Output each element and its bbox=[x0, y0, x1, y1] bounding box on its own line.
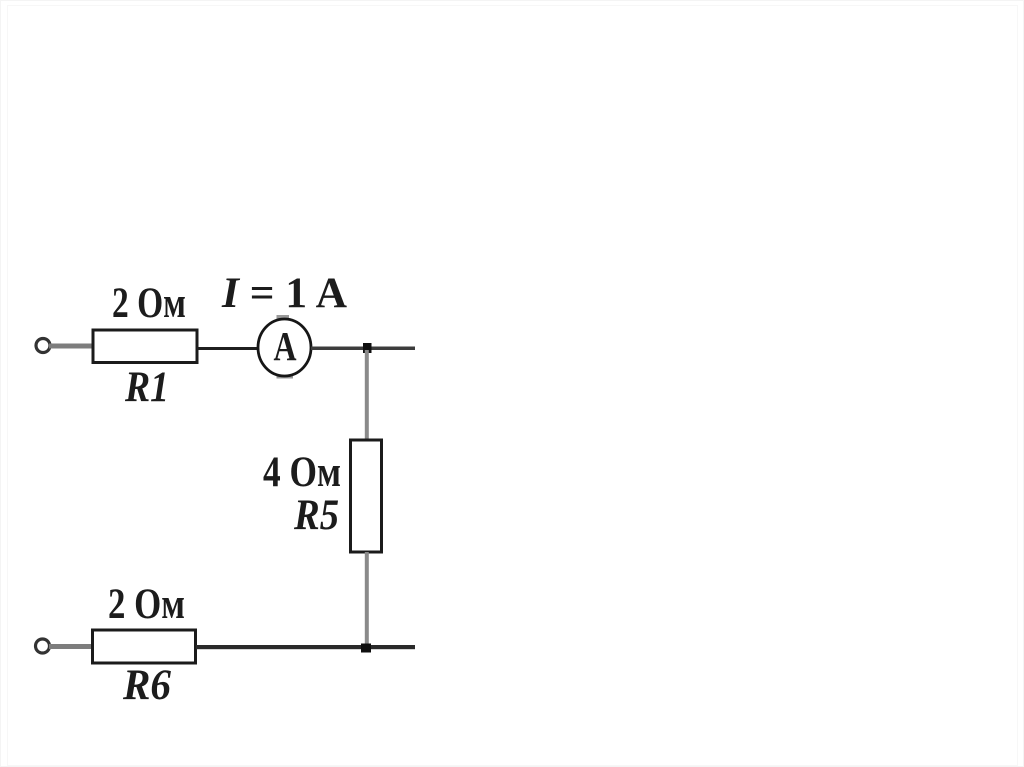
wire R6 to node B and right stub bbox=[196, 645, 415, 649]
wire R1 to ammeter bbox=[197, 347, 258, 350]
svg-text:R5: R5 bbox=[293, 492, 339, 539]
wire terminal to R1 bbox=[49, 344, 93, 349]
node A junction dot bbox=[363, 343, 372, 353]
svg-text:R6: R6 bbox=[122, 662, 171, 709]
terminal top-left bbox=[36, 339, 50, 353]
svg-text:2 Ом: 2 Ом bbox=[108, 581, 185, 628]
wire R5 to node B bbox=[365, 552, 369, 646]
ammeter U1 terminal tab bottom bbox=[277, 374, 294, 379]
terminal bottom-left bbox=[36, 639, 50, 653]
node B junction dot bbox=[361, 644, 371, 653]
svg-text:I = 1 A: I = 1 A bbox=[221, 270, 347, 317]
svg-text:A: A bbox=[274, 323, 297, 369]
ammeter U1 terminal tab top bbox=[277, 315, 290, 320]
svg-text:2 Ом: 2 Ом bbox=[112, 280, 186, 327]
ammeter U1 bbox=[258, 319, 311, 376]
svg-text:R1: R1 bbox=[124, 364, 169, 411]
resistor R6 bbox=[93, 630, 196, 663]
svg-text:4 Ом: 4 Ом bbox=[263, 449, 341, 496]
resistor R5 bbox=[351, 440, 382, 552]
wire node A down to R5 bbox=[365, 350, 369, 442]
wire terminal to R6 bbox=[49, 644, 92, 649]
wire ammeter to node A bbox=[311, 347, 415, 351]
resistor R1 bbox=[93, 330, 197, 363]
